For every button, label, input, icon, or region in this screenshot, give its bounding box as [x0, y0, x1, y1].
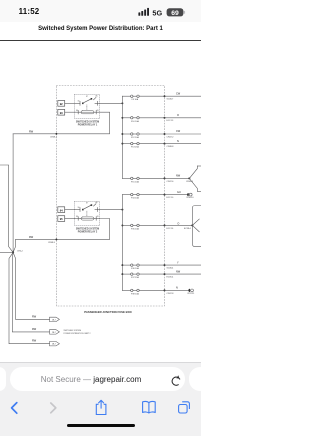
- svg-text:F36 10A: F36 10A: [131, 267, 139, 270]
- svg-text:F13 25A: F13 25A: [131, 146, 139, 149]
- inline connector GU: [187, 193, 189, 196]
- link box 92: [58, 101, 65, 107]
- node bus2 F37: [121, 273, 123, 275]
- relay R1 coil: [74, 110, 99, 114]
- svg-text:93: 93: [60, 111, 63, 115]
- node bus2 F35: [121, 224, 123, 226]
- node into component: [191, 224, 193, 226]
- fuse F12 row: [122, 130, 201, 139]
- wire NW fan down: [189, 178, 197, 191]
- svg-text:POWER RELAY 2: POWER RELAY 2: [78, 231, 98, 234]
- svg-text:F15 10A: F15 10A: [131, 180, 139, 183]
- wire 95 to relay: [65, 218, 75, 220]
- relay R1 dashed box: [74, 94, 99, 118]
- svg-text:RW: RW: [32, 315, 37, 318]
- svg-text:POWER RELAY 1: POWER RELAY 1: [78, 124, 98, 127]
- svg-text:95: 95: [60, 217, 63, 221]
- url pill: [10, 367, 185, 391]
- svg-text:RW: RW: [32, 340, 37, 343]
- wire RW2 feed: [16, 219, 110, 240]
- wire splice to left edge: [0, 251, 13, 253]
- splice node CR01: [12, 251, 14, 253]
- wire left feed down: [12, 134, 14, 253]
- status bar time: [14, 7, 44, 16]
- page title: [0, 26, 201, 32]
- svg-text:EC39-4: EC39-4: [167, 277, 175, 279]
- relay R2 coil: [74, 216, 99, 220]
- svg-text:92: 92: [60, 102, 63, 106]
- wire relay1 output to bus: [100, 102, 123, 104]
- wire chevron up: [192, 219, 199, 225]
- svg-text:GU: GU: [177, 191, 181, 194]
- fuse F36 row: [122, 261, 201, 270]
- relay R2 label: [76, 227, 99, 233]
- svg-text:NW: NW: [176, 175, 181, 178]
- node bus1 F10: [121, 117, 123, 119]
- svg-text:F9 10A: F9 10A: [132, 98, 139, 101]
- wire branch 1 down: [9, 252, 50, 343]
- svg-text:EC7-10: EC7-10: [167, 197, 175, 199]
- fuse F38 row: [122, 287, 195, 296]
- relay R2 switch contact: [74, 201, 99, 212]
- svg-text:87: 87: [86, 96, 88, 98]
- status bar background: [0, 0, 201, 22]
- fuse F37 row: [122, 270, 201, 279]
- signal bars: [0, 0, 201, 22]
- fuse F9 row: [122, 92, 201, 101]
- svg-text:85: 85: [97, 216, 99, 218]
- toolbar forward: [51, 403, 56, 413]
- url text: [0, 375, 182, 384]
- svg-text:CR48-8: CR48-8: [167, 146, 175, 148]
- svg-text:IP22-11: IP22-11: [188, 293, 196, 295]
- svg-text:RW: RW: [29, 236, 34, 239]
- node CR48-7: [55, 133, 57, 135]
- fuse F10 row: [122, 114, 201, 123]
- svg-text:F35 10A: F35 10A: [131, 227, 139, 230]
- fuse F35 row: [122, 206, 201, 247]
- svg-text:SC08-7: SC08-7: [167, 99, 175, 101]
- passenger junction fuse box dashed border: [56, 86, 164, 307]
- fuse F13 row: [122, 140, 201, 149]
- fuse F15 row: [122, 166, 201, 191]
- svg-text:RW: RW: [32, 328, 37, 331]
- svg-text:IP40-10: IP40-10: [187, 197, 195, 199]
- svg-text:EC38-4: EC38-4: [184, 228, 192, 230]
- svg-text:30: 30: [78, 207, 80, 209]
- svg-text:EC7-13: EC7-13: [167, 120, 175, 122]
- destination label: [64, 330, 91, 335]
- link box 93: [58, 109, 65, 115]
- off-page arrow 3: [50, 342, 60, 346]
- wire branch 2 down: [12, 252, 49, 332]
- svg-text:PASSENGER JUNCTION FUSE BOX: PASSENGER JUNCTION FUSE BOX: [84, 310, 132, 314]
- svg-text:F38 10A: F38 10A: [131, 292, 139, 295]
- toolbar back: [0, 395, 201, 425]
- bus 2: [121, 195, 123, 291]
- relay R1 mechanical link: [86, 105, 88, 110]
- svg-text:2B-7: 2B-7: [52, 319, 56, 321]
- node bus2 F36: [121, 264, 123, 266]
- fuse F34 row: [122, 191, 194, 200]
- connector stub bottom: [197, 190, 201, 192]
- svg-text:CR47-2: CR47-2: [167, 136, 175, 138]
- svg-text:CR48-9: CR48-9: [48, 242, 56, 244]
- svg-text:CR48-7: CR48-7: [50, 137, 58, 139]
- browser chrome bottom: [0, 362, 201, 436]
- svg-text:CW: CW: [176, 130, 181, 133]
- svg-text:O: O: [177, 222, 179, 225]
- node bus1 F12: [121, 133, 123, 135]
- svg-text:CR47-8: CR47-8: [167, 293, 175, 295]
- off-page arrow 1: [50, 317, 60, 321]
- svg-text:2B-7: 2B-7: [52, 344, 56, 346]
- off-page arrow 2: [50, 330, 60, 334]
- node CR48-9: [55, 238, 57, 240]
- svg-text:30: 30: [78, 101, 80, 103]
- wire 94 to relay: [65, 209, 75, 211]
- svg-text:F34 10A: F34 10A: [131, 197, 139, 200]
- toolbar tabs: [179, 402, 190, 413]
- link box 94: [58, 207, 65, 213]
- svg-text:NW: NW: [176, 270, 181, 273]
- home indicator: [67, 424, 135, 427]
- wire relay2 output to bus: [100, 209, 123, 211]
- svg-text:O: O: [177, 114, 179, 117]
- title rule: [0, 40, 201, 41]
- wire RW2 riser: [13, 239, 16, 252]
- svg-text:CW: CW: [176, 92, 181, 95]
- reload icon: [168, 374, 184, 390]
- node relay2 feed: [121, 209, 123, 211]
- relay R1 label: [76, 120, 99, 126]
- svg-text:CR47-6: CR47-6: [167, 181, 175, 183]
- relay R1 switch contact: [74, 95, 99, 106]
- node relay1 feed: [121, 102, 123, 104]
- toolbar share: [96, 400, 106, 414]
- connector stub top: [197, 165, 201, 167]
- inline connector N: [188, 289, 190, 292]
- svg-text:F37 15A: F37 15A: [131, 276, 139, 279]
- svg-text:85: 85: [97, 110, 99, 112]
- svg-text:86: 86: [76, 216, 78, 218]
- svg-text:RW: RW: [29, 131, 34, 134]
- node bus1 F13: [121, 143, 123, 145]
- svg-text:POWER DISTRIBUTION. PART 2: POWER DISTRIBUTION. PART 2: [64, 332, 91, 335]
- svg-text:94: 94: [60, 208, 63, 212]
- bus 1: [121, 96, 123, 178]
- svg-text:F12 10A: F12 10A: [131, 136, 139, 139]
- wire chevron down: [192, 225, 199, 231]
- relay R2 mechanical link: [86, 211, 88, 216]
- svg-text:CR0-2: CR0-2: [17, 251, 24, 253]
- url pill right peek: [189, 367, 211, 391]
- wire NW fan up: [189, 166, 197, 178]
- svg-text:2B-7: 2B-7: [52, 332, 56, 334]
- svg-text:86: 86: [76, 110, 78, 112]
- svg-text:F10 10A: F10 10A: [131, 120, 139, 123]
- link box 95: [58, 216, 65, 222]
- svg-text:EC7-16: EC7-16: [167, 228, 175, 230]
- svg-text:Y: Y: [177, 261, 179, 264]
- wire 92 to relay: [65, 102, 75, 104]
- toolbar bookmarks: [143, 401, 156, 413]
- svg-text:SC08-4: SC08-4: [167, 268, 175, 270]
- component box right: [192, 206, 201, 247]
- wire 93 to relay: [65, 111, 75, 113]
- svg-text:N: N: [176, 287, 178, 290]
- svg-text:N: N: [177, 140, 179, 143]
- svg-text:87: 87: [86, 202, 88, 204]
- url pill left peek: [0, 367, 6, 391]
- wire from left edge: [0, 165, 13, 252]
- relay R2 dashed box: [74, 201, 99, 225]
- svg-text:AC: AC: [96, 95, 99, 98]
- wire RW1 feed: [13, 112, 110, 134]
- schematic svg: [0, 0, 201, 362]
- splice node NW: [188, 177, 190, 179]
- wire branch 3 down: [13, 252, 49, 319]
